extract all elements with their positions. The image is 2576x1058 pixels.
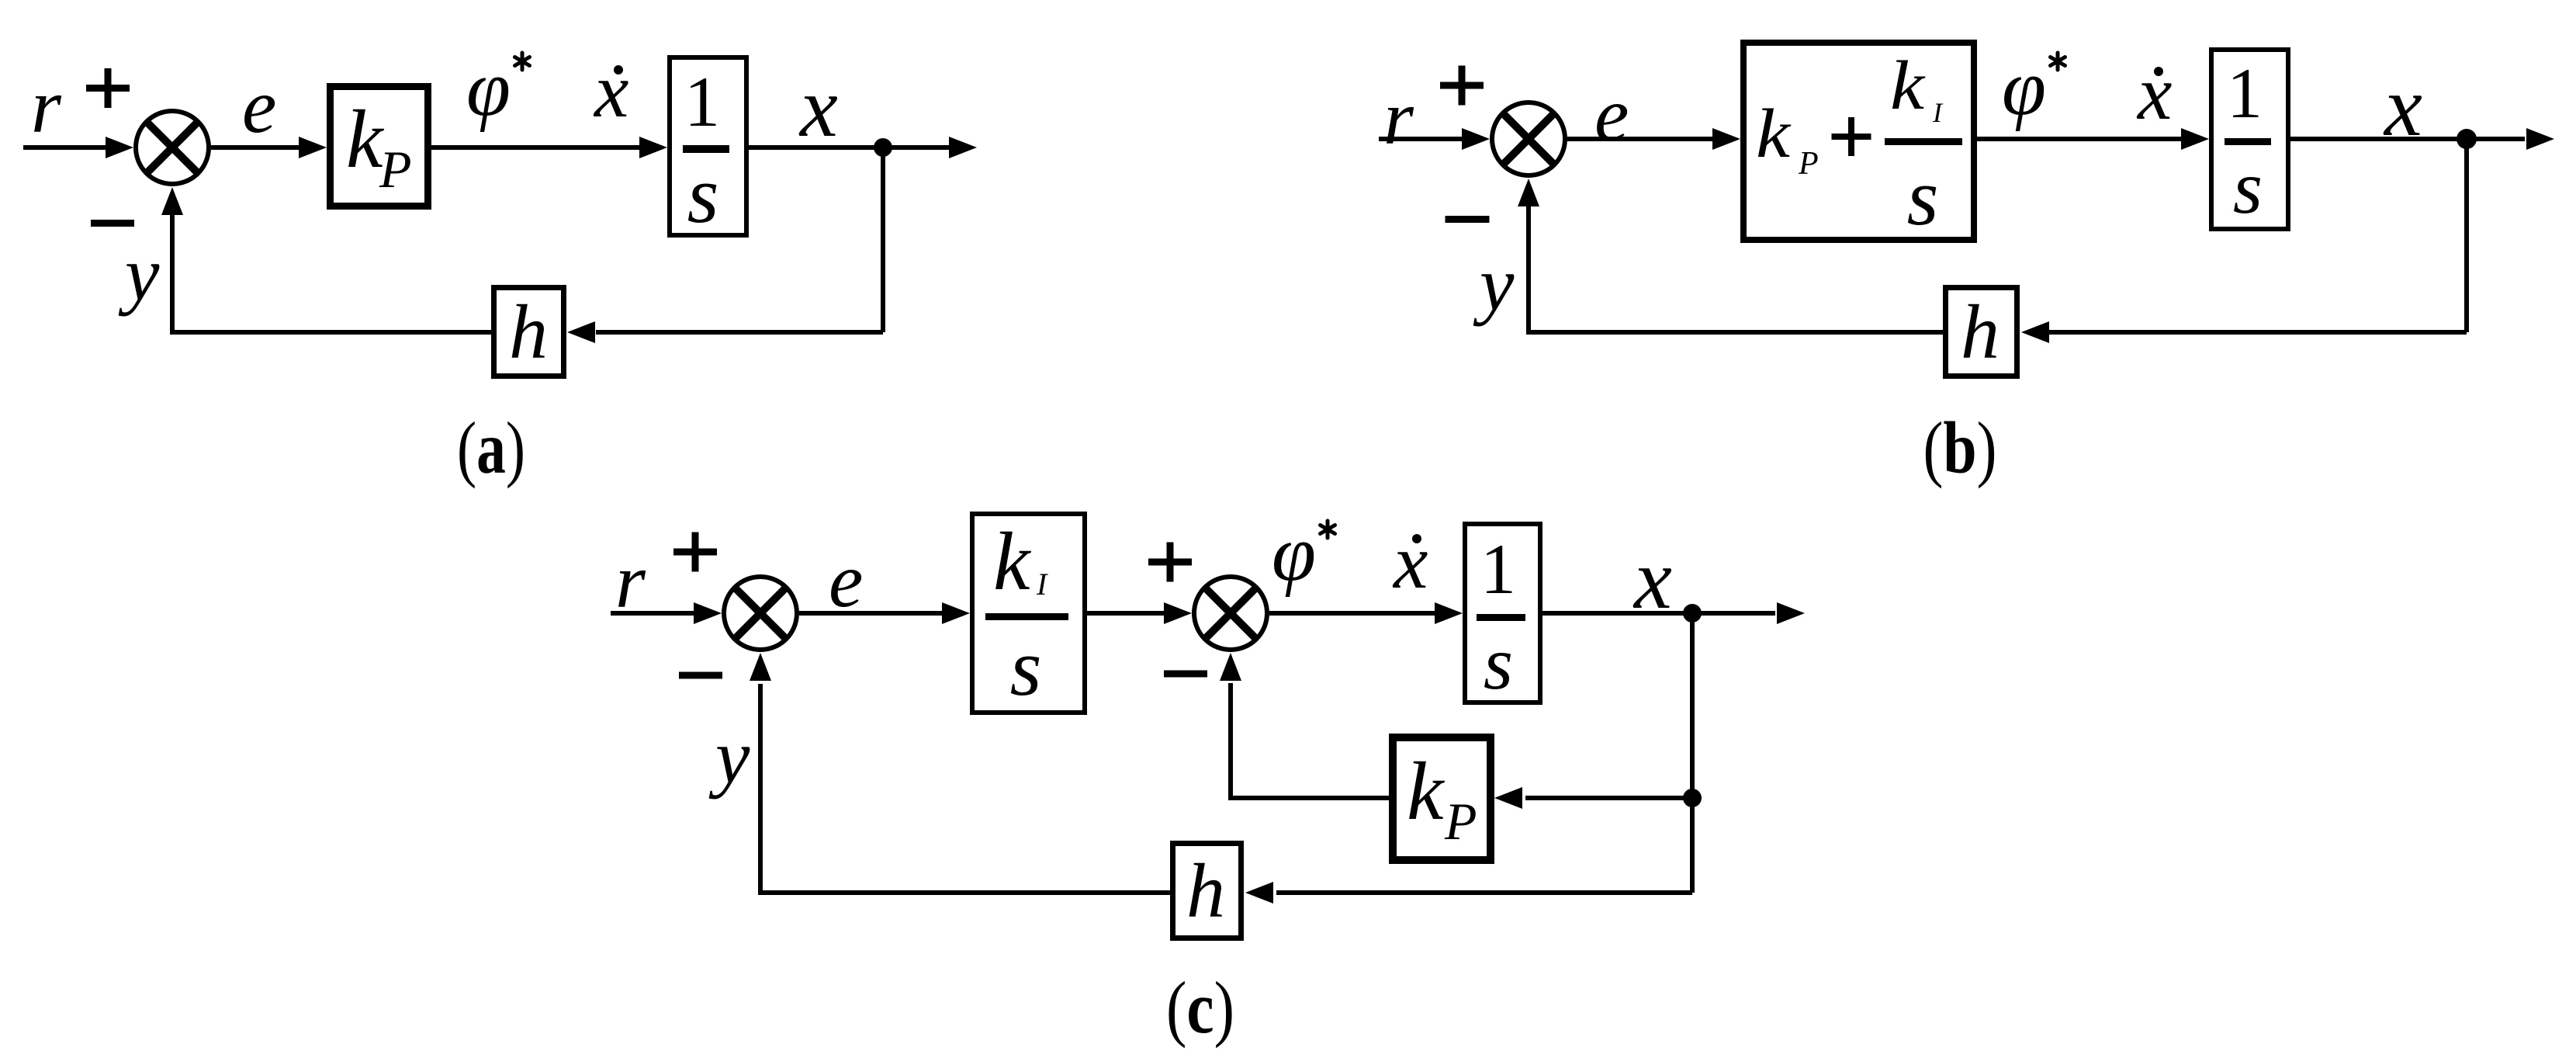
- wire: branch down to feedback (a): [881, 147, 885, 332]
- arrowhead up into S1b: [1518, 179, 1539, 206]
- arrowhead into h block (b): [2021, 321, 2049, 343]
- output arrowhead (b): [2526, 128, 2554, 150]
- wire: input r into summing junction S1b: [1379, 137, 1466, 141]
- asterisk superscript (c): [1321, 521, 1335, 538]
- arrowhead into 1/s (c): [1435, 602, 1463, 624]
- wire: input r into summing junction S1a: [23, 145, 109, 150]
- plus sign at S1b: [1440, 66, 1484, 106]
- svg-text:x: x: [1392, 519, 1428, 605]
- svg-text:(a): (a): [457, 407, 525, 489]
- wire: S2c to 1/s (c): [1269, 611, 1437, 616]
- plus sign at S1c: [673, 532, 717, 572]
- arrowhead into h block (a): [567, 321, 595, 343]
- block kP + kI/s (b): [1743, 43, 1974, 240]
- svg-text:s: s: [687, 149, 719, 240]
- wire: branch to kP block (c): [1525, 796, 1692, 800]
- wire: S1b to PI block: [1567, 137, 1716, 141]
- branch node dot (b): [2457, 129, 2477, 149]
- PI formula plus sign: [1832, 117, 1871, 156]
- svg-text:h: h: [1961, 289, 2000, 375]
- svg-text:r: r: [615, 538, 646, 624]
- svg-text:e: e: [242, 63, 276, 149]
- svg-text:r: r: [1383, 75, 1414, 161]
- wire: PI block to 1/s (b): [1977, 137, 2184, 141]
- block kP (a): [331, 87, 428, 206]
- svg-text:x: x: [2383, 59, 2422, 154]
- output arrowhead (a): [949, 137, 977, 158]
- svg-text:1: 1: [2227, 54, 2263, 133]
- arrowhead up into S2c: [1220, 653, 1241, 681]
- svg-text:s: s: [1907, 151, 1939, 242]
- block h feedback gain (c): [1173, 844, 1241, 938]
- summing junction S1c: [724, 577, 797, 650]
- block h feedback gain (a): [494, 288, 564, 376]
- svg-text:y: y: [118, 231, 160, 317]
- svg-text:y: y: [1473, 241, 1515, 327]
- svg-text:(b): (b): [1923, 407, 1997, 489]
- svg-text:e: e: [1594, 71, 1629, 158]
- svg-text:φ: φ: [1272, 509, 1316, 598]
- wire: branch down to feedback (b): [2464, 139, 2469, 332]
- svg-text:1: 1: [684, 62, 720, 141]
- block 1/s integrator (b): [2211, 50, 2288, 229]
- block kI/s (c): [972, 514, 1085, 713]
- wire: kP to integrator 1/s (a): [431, 145, 642, 150]
- wire: kI/s to summing junction S2c: [1087, 611, 1167, 616]
- svg-text:I: I: [1036, 567, 1048, 602]
- svg-text:x: x: [1633, 532, 1672, 626]
- svg-text:1: 1: [1480, 529, 1516, 609]
- arrowhead into PI block: [1712, 128, 1740, 150]
- svg-text:s: s: [1010, 622, 1042, 713]
- block 1/s integrator (a): [670, 57, 746, 235]
- minus sign at S1b: [1446, 216, 1490, 223]
- branch node dot (a): [874, 138, 892, 157]
- svg-text:h: h: [1186, 848, 1225, 934]
- arrowhead up into S1a: [161, 187, 183, 215]
- wire: 1/s to output (a): [749, 145, 949, 150]
- svg-text:s: s: [2233, 146, 2263, 230]
- minus sign at S1a: [91, 220, 134, 227]
- svg-text:x: x: [798, 60, 838, 154]
- svg-text:h: h: [509, 289, 548, 375]
- svg-text:x: x: [593, 47, 628, 134]
- svg-text:k: k: [1890, 47, 1926, 124]
- wire: feedback right segment into h (a): [596, 330, 883, 335]
- wire: h to S1c vertical (c): [760, 684, 1170, 893]
- wire: S1c to kI/s block: [799, 611, 943, 616]
- PI formula fraction bar: [1885, 138, 1962, 145]
- svg-text:φ: φ: [2002, 43, 2046, 132]
- arrowhead into S2c: [1164, 602, 1192, 624]
- svg-text:r: r: [31, 63, 62, 149]
- arrowhead into S1b: [1462, 128, 1490, 150]
- svg-text:x: x: [2136, 50, 2172, 136]
- plus sign at S2c: [1148, 543, 1192, 582]
- block 1/s integrator (c): [1465, 524, 1540, 702]
- asterisk superscript (b): [2051, 53, 2065, 70]
- svg-text:I: I: [1932, 97, 1944, 128]
- arrowhead into kI/s block: [942, 602, 970, 624]
- svg-text:P: P: [379, 140, 412, 199]
- arrowhead up into S1c: [750, 653, 771, 681]
- branch node dot upper (c): [1683, 604, 1702, 623]
- svg-text:y: y: [708, 713, 750, 800]
- block h feedback gain (b): [1946, 288, 2017, 376]
- wire: S1a to kP block: [211, 145, 303, 150]
- wire: h to summing junction vertical (a): [172, 213, 491, 332]
- output arrowhead (c): [1777, 602, 1805, 624]
- svg-text:(c): (c): [1166, 966, 1234, 1049]
- svg-text:e: e: [829, 537, 863, 623]
- arrowhead into 1/s (b): [2181, 128, 2209, 150]
- arrowhead into kP (a): [299, 137, 327, 158]
- svg-text:s: s: [1484, 622, 1513, 706]
- arrowhead into h block (c): [1245, 882, 1273, 904]
- wire: 1/s to output (c): [1542, 611, 1775, 616]
- block kP inner feedback (c): [1393, 737, 1491, 860]
- minus sign at S2c: [1164, 671, 1207, 678]
- arrowhead into 1/s (a): [639, 137, 667, 158]
- arrowhead into S1a: [106, 137, 133, 158]
- summing junction S2c: [1194, 577, 1267, 650]
- arrowhead into kP (c): [1494, 787, 1522, 809]
- wire: feedback bottom into h (c): [1276, 890, 1692, 895]
- svg-text:k: k: [1407, 746, 1446, 838]
- wire: branch down to h feedback corner (c): [1690, 613, 1695, 893]
- wire: 1/s to output (b): [2290, 137, 2525, 141]
- arrowhead into S1c: [694, 602, 722, 624]
- svg-text:k: k: [1756, 95, 1792, 172]
- svg-text:φ: φ: [466, 44, 511, 133]
- summing junction S1a: [136, 111, 209, 184]
- asterisk superscript (a): [515, 53, 530, 70]
- minus sign at S1c: [679, 672, 722, 679]
- wire: kP to S2c vertical (c): [1231, 683, 1389, 798]
- plus sign at S1a: [86, 68, 130, 108]
- wire: input r into summing junction S1c: [611, 611, 695, 616]
- wire: h to summing junction vertical (b): [1529, 206, 1943, 332]
- branch node dot lower (c): [1683, 789, 1702, 807]
- wire: feedback right segment into h (b): [2049, 330, 2467, 335]
- summing junction S1b: [1492, 102, 1565, 175]
- svg-text:k: k: [993, 516, 1032, 608]
- svg-text:P: P: [1444, 792, 1477, 851]
- svg-text:P: P: [1798, 146, 1819, 182]
